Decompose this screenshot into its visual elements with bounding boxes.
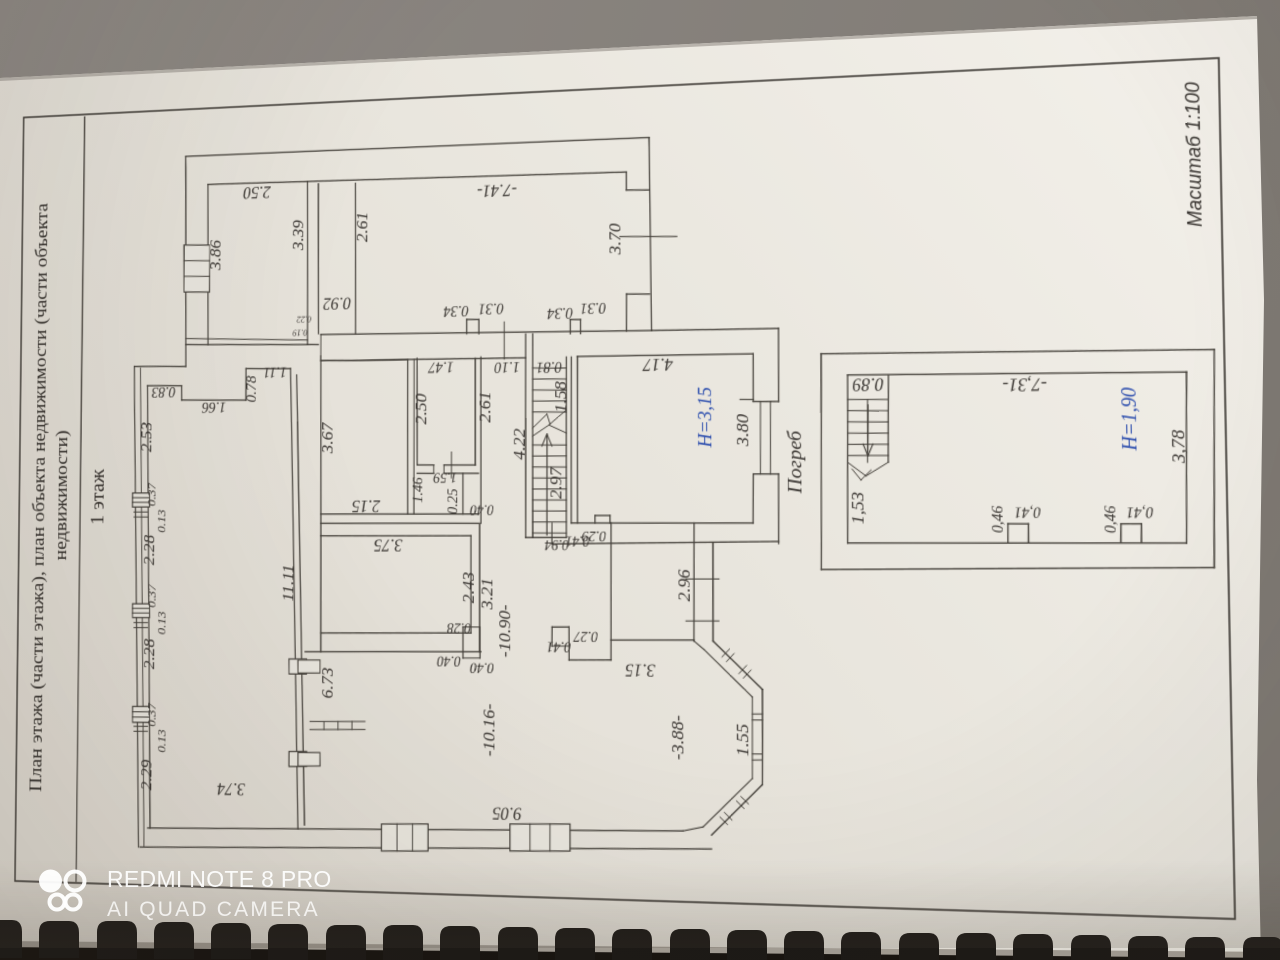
svg-text:AI QUAD CAMERA: AI QUAD CAMERA xyxy=(107,898,320,921)
svg-text:REDMI NOTE 8 PRO: REDMI NOTE 8 PRO xyxy=(107,866,332,892)
